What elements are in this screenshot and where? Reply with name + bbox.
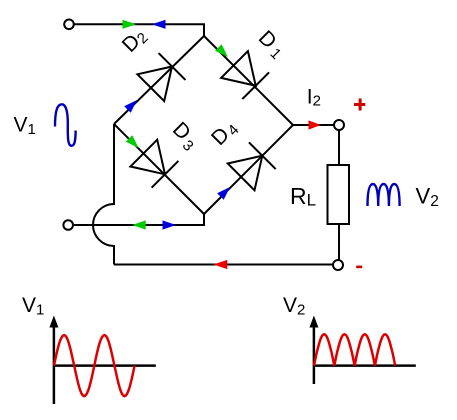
waveform V2 rectified (red) (314, 334, 395, 365)
svg-text:V2: V2 (416, 183, 439, 210)
terminal top AC input (64, 20, 74, 30)
wire bridge edge D2 (left node to top node) (114, 36, 204, 124)
waveform V1 sine (red) (54, 335, 135, 396)
wire bridge edge D1 (top node to right node) (204, 36, 293, 125)
resistor RL (328, 165, 350, 224)
wire top AC input (74, 24, 204, 36)
arrow red I2 current right (309, 120, 322, 129)
axis V1 vertical with arrow (53, 324, 56, 404)
svg-text:D1: D1 (253, 26, 290, 63)
svg-text:RL: RL (290, 183, 316, 210)
diode D4 (228, 142, 276, 190)
axis V2 horizontal (314, 364, 416, 367)
arrow green current left (bottom AC wire) (132, 220, 146, 229)
axis V2 vertical with arrow (313, 324, 316, 384)
diode D2 (137, 53, 185, 101)
diode D1 (221, 51, 269, 99)
label - (red) (356, 266, 362, 269)
label + (red) (354, 99, 365, 111)
wire bottom AC input (74, 214, 204, 225)
arrow red current left (bottom return wire) (213, 260, 227, 269)
svg-text:V1: V1 (14, 114, 36, 139)
arrow green down-right (D3 branch) (126, 135, 139, 148)
svg-text:D4: D4 (207, 116, 243, 152)
svg-text:I2: I2 (307, 86, 321, 110)
arrow blue up-right (D4 branch) (217, 187, 230, 200)
svg-text:D2: D2 (118, 24, 152, 58)
arrow blue up-right (D2 branch) (124, 100, 137, 113)
wire left node down with hop over AC wire (93, 124, 114, 265)
icon V2 rectified symbol (blue) (368, 184, 400, 206)
svg-text:V1: V1 (22, 294, 44, 319)
terminal + output (334, 120, 344, 130)
diode D3 (130, 140, 178, 188)
axis V1 horizontal (54, 364, 156, 367)
wire bottom return (- terminal to left) (114, 264, 333, 266)
arrow blue current right (bottom AC wire) (163, 220, 177, 229)
icon V1 sine symbol (blue) (55, 104, 76, 146)
wire resistor to - terminal (338, 224, 340, 260)
terminal - output (333, 260, 343, 270)
wire bridge edge D4 (bottom node to right node) (204, 125, 293, 214)
wire right node to + terminal (293, 124, 334, 126)
svg-text:V2: V2 (283, 294, 305, 319)
wire bridge edge D3 (left node to bottom node) (114, 124, 204, 214)
terminal bottom AC input (63, 220, 73, 230)
arrow green down-right (D1 branch) (215, 44, 228, 57)
svg-text:D3: D3 (166, 118, 203, 155)
wire + terminal to resistor (338, 130, 340, 165)
arrow green current right (top wire) (123, 20, 137, 29)
arrow blue current left (top wire) (152, 20, 166, 29)
